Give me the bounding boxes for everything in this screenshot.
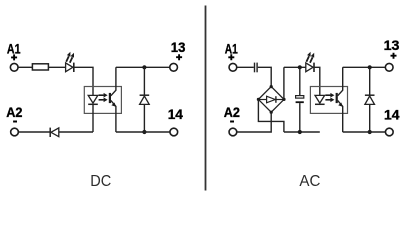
wire A2 to diode — [19, 131, 50, 133]
svg-text:A1: A1 — [225, 40, 238, 56]
terminal 14 (DC) — [170, 128, 178, 136]
phototransistor Q2 emitter arrowhead (AC) — [338, 103, 342, 107]
series capacitor C1 plate 1 (AC) — [254, 63, 256, 73]
smoothing capacitor C2 positive plate (AC) — [296, 96, 304, 99]
optocoupler U2 box (AC) — [310, 87, 347, 114]
svg-text:14: 14 — [384, 106, 400, 122]
wire bridge right corner to positive rail — [283, 67, 285, 99]
phototransistor Q1 collector (DC) — [111, 67, 116, 96]
optocoupler coupling arrow 2 (AC) — [325, 98, 334, 103]
junction node bottom rail / diode branch (AC) — [368, 130, 372, 134]
wire bridge left corner to negative rail jog — [258, 99, 284, 132]
wire A1 to resistor — [19, 66, 33, 68]
bridge rectifier diamond (AC) — [258, 87, 284, 113]
terminal A1 (DC) — [10, 63, 18, 71]
minus sign at A2 (DC) — [13, 121, 17, 123]
LED indicator (AC) cathode bar — [313, 63, 315, 72]
wire LED to optocoupler anode — [74, 67, 93, 95]
optocoupler U2 LED cathode bar (AC) — [315, 103, 325, 105]
LED indicator (AC) triangle — [306, 63, 313, 72]
wire top rail collector to terminal 13 — [116, 66, 169, 68]
wire capacitor to bridge top corner — [258, 67, 271, 86]
optocoupler U2 LED triangle (AC) — [315, 95, 325, 103]
output diode triangle (AC) — [365, 96, 375, 104]
LED indicator (DC) triangle — [66, 63, 73, 72]
wire capacitor branch upper (AC) — [299, 67, 301, 95]
bridge corner node right — [282, 98, 285, 101]
wire negative rail to optocoupler cathode — [284, 131, 320, 133]
svg-text:A2: A2 — [6, 104, 22, 120]
protection diode triangle (DC) — [51, 128, 59, 137]
optocoupler coupling arrow 2 (DC) — [99, 98, 108, 103]
wire resistor to LED — [48, 66, 65, 68]
svg-text:AC: AC — [299, 173, 320, 190]
LED emission arrow 1 (AC) — [306, 52, 310, 62]
wire diode branch lower (AC) — [369, 104, 371, 132]
svg-text:DC: DC — [90, 173, 111, 190]
bridge inner diode stub left — [258, 99, 266, 101]
plus sign at A1 (AC) — [228, 54, 234, 60]
optocoupler coupling arrow 1 (DC) — [99, 93, 108, 98]
phototransistor Q1 emitter (DC) — [111, 100, 116, 132]
series capacitor C1 plate 2 (AC) — [256, 63, 258, 73]
minus sign at A2 (AC) — [230, 121, 234, 123]
wire diode branch upper (AC) — [369, 67, 371, 95]
output diode cathode bar (DC) — [140, 94, 150, 96]
output diode triangle (DC) — [140, 96, 150, 104]
junction node top rail / diode branch (DC) — [142, 65, 146, 69]
bridge inner diode cathode bar — [275, 96, 277, 103]
bridge inner diode stub right — [276, 99, 284, 101]
terminal A2 (DC) — [11, 128, 19, 136]
wire LED to optocoupler anode (AC) — [314, 67, 320, 95]
terminal A2 (AC) — [229, 128, 237, 136]
wire optocoupler cathode down (DC) — [92, 104, 94, 132]
wire bottom rail emitter to terminal 14 — [116, 131, 170, 133]
svg-text:13: 13 — [384, 37, 400, 53]
junction node capacitor top (AC) — [298, 65, 302, 69]
wire positive rail to LED (AC) — [284, 66, 306, 68]
wire diode branch lower (DC) — [143, 104, 145, 132]
wire diode branch upper (DC) — [143, 67, 145, 95]
wire top rail collector to terminal 13 (AC) — [343, 66, 385, 68]
terminal A1 (AC) — [229, 63, 237, 71]
wire A1 to series capacitor — [237, 66, 254, 68]
output diode cathode bar (AC) — [365, 94, 375, 96]
phototransistor Q2 collector (AC) — [338, 67, 343, 96]
plus sign at 13 (AC) — [391, 53, 397, 59]
bridge corner node top — [270, 85, 273, 88]
wire A2 to bridge bottom corner — [237, 112, 271, 132]
plus sign at 13 (DC) — [176, 54, 182, 60]
junction node capacitor bottom (AC) — [298, 130, 302, 134]
divider line between DC and AC sections — [205, 6, 207, 191]
junction node bottom rail / diode branch (DC) — [142, 130, 146, 134]
plus sign at A1 (DC) — [11, 54, 17, 60]
phototransistor Q2 emitter (AC) — [338, 100, 343, 132]
wire capacitor branch lower (AC) — [299, 103, 301, 132]
bridge corner node left — [257, 98, 260, 101]
phototransistor Q2 base bar (AC) — [336, 93, 338, 103]
optocoupler U1 LED triangle (DC) — [88, 95, 98, 103]
LED indicator (DC) cathode bar — [73, 63, 75, 72]
terminal 14 (AC) — [385, 128, 393, 136]
junction node top rail / diode branch (AC) — [368, 65, 372, 69]
bridge inner diode triangle — [267, 96, 276, 103]
phototransistor Q1 emitter arrowhead (DC) — [111, 103, 115, 107]
bridge corner node bottom — [270, 111, 273, 114]
wire bottom rail emitter to terminal 14 (AC) — [343, 131, 385, 133]
optocoupler U1 box (DC) — [84, 87, 121, 114]
svg-text:A1: A1 — [7, 40, 21, 56]
smoothing capacitor C2 negative plate (AC) — [296, 101, 304, 103]
phototransistor Q1 base bar (DC) — [109, 93, 111, 103]
optocoupler coupling arrow 1 (AC) — [325, 93, 334, 98]
svg-text:A2: A2 — [224, 104, 240, 120]
LED emission arrow 2 (AC) — [310, 53, 314, 63]
LED emission arrow 2 (DC) — [70, 53, 74, 63]
terminal 13 (AC) — [385, 63, 393, 71]
resistor R1 — [32, 64, 48, 70]
svg-text:14: 14 — [168, 106, 183, 122]
svg-text:13: 13 — [171, 39, 186, 55]
LED emission arrow 1 (DC) — [66, 52, 70, 62]
protection diode cathode bar (DC) — [49, 128, 51, 137]
wire diode to optocoupler cathode — [59, 131, 93, 133]
optocoupler U1 LED cathode bar (DC) — [88, 103, 98, 105]
terminal 13 (DC) — [170, 63, 178, 71]
